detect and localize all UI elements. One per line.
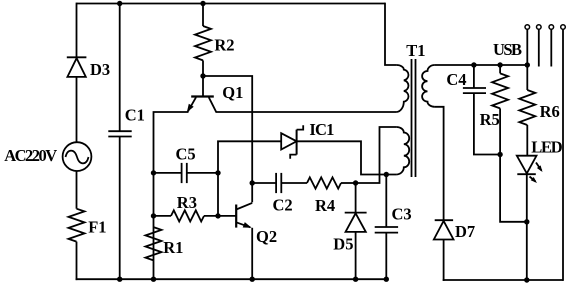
svg-text:D7: D7 [455, 222, 475, 241]
shunt regulator IC1 [281, 125, 303, 159]
wire R6 top lead [526, 29, 528, 90]
wire Q1 base lead [202, 76, 204, 97]
LED [517, 156, 543, 183]
USB pin 4 terminal [561, 25, 566, 30]
node USB bus / R5 [497, 62, 502, 67]
wire USB pin4 ground [562, 29, 564, 281]
node bottom rail / C3 [384, 277, 389, 282]
node bottom rail / Q2 emitter [250, 277, 255, 282]
resistor R3 [171, 210, 204, 221]
node top rail / R2 [200, 1, 205, 6]
label D7 [455, 222, 475, 241]
wire R2 bottom lead [202, 60, 204, 76]
capacitor C5 [182, 163, 187, 183]
node R3 right / IC1 branch [215, 213, 220, 218]
wire C2 to R4 [281, 182, 307, 184]
node IC1 / winding / C3 [384, 172, 389, 177]
svg-text:R5: R5 [480, 110, 500, 129]
wire AC source to F1 [76, 171, 78, 209]
svg-text:R4: R4 [315, 196, 335, 215]
node USB bus / R6 [525, 62, 530, 67]
wire R5 top lead [499, 65, 501, 73]
svg-text:R1: R1 [163, 238, 183, 257]
wire C5 left lead [154, 172, 182, 174]
label LED [531, 138, 563, 157]
transformer T1 secondary winding [422, 65, 435, 107]
USB pin 2 terminal [537, 25, 542, 30]
wire C4 top lead [473, 65, 475, 88]
svg-text:IC1: IC1 [309, 120, 334, 139]
label C5 [176, 145, 196, 164]
node C5 right / IC1 branch [215, 170, 220, 175]
label R3 [177, 193, 197, 212]
diode D7 [434, 220, 454, 239]
wire top rail [77, 3, 386, 5]
wire R5 bottom lead to LED node [500, 108, 527, 221]
label R1 [163, 238, 183, 257]
label R6 [540, 102, 560, 121]
wire C1 branch upper [119, 4, 121, 132]
USB pin 1 terminal [525, 25, 530, 30]
svg-text:C1: C1 [125, 106, 145, 125]
svg-text:R2: R2 [214, 36, 234, 55]
svg-text:USB: USB [493, 40, 522, 59]
svg-text:T1: T1 [406, 41, 425, 60]
wire R3 to Q2 base [204, 215, 236, 217]
wire USB pin2 [538, 29, 540, 66]
node R5 / LED [524, 219, 529, 224]
wire D5 node to feedback winding top [356, 127, 397, 183]
svg-text:Q2: Q2 [256, 227, 277, 246]
svg-text:R3: R3 [177, 193, 197, 212]
label USB [493, 40, 522, 59]
svg-text:F1: F1 [88, 217, 106, 236]
label Q2 [256, 227, 277, 246]
svg-text:R6: R6 [540, 102, 560, 121]
wire D7 bottom lead [443, 240, 445, 281]
transistor Q1 [187, 97, 216, 113]
resistor R5 [492, 73, 508, 108]
label T1 [406, 41, 425, 60]
wire Q2 emitter to bottom rail [251, 228, 253, 279]
capacitor C4 [463, 88, 486, 93]
resistor R2 [195, 26, 211, 60]
wire IC1 anode branch [218, 141, 281, 216]
fuse F1 [69, 209, 85, 242]
resistor R4 [307, 177, 341, 188]
transformer T1 feedback winding [397, 127, 410, 175]
transformer T1 primary winding [397, 65, 409, 112]
transformer T1 core [412, 59, 416, 177]
resistor R1 [146, 227, 162, 260]
node R3 left [151, 213, 156, 218]
wire C4 bottom lead to R5 [474, 93, 500, 154]
wire C3 top lead [385, 175, 387, 228]
capacitor C1 [108, 131, 131, 136]
diode D3 [67, 57, 87, 77]
node bottom rail / D5 [353, 277, 358, 282]
wire left rail top segment [76, 3, 78, 58]
wire secondary bottom to D7 [435, 107, 444, 220]
label D3 [90, 60, 110, 79]
label R4 [315, 196, 335, 215]
svg-text:AC220V: AC220V [4, 146, 57, 165]
node R4 / D5 [353, 180, 358, 185]
svg-text:C3: C3 [392, 205, 412, 224]
wire C5 right lead [187, 172, 218, 174]
wire bottom rail (secondary side) [443, 279, 563, 281]
wire primary top lead [385, 3, 397, 65]
svg-text:D5: D5 [333, 235, 353, 254]
wire bottom rail (primary side) [76, 278, 387, 280]
label C4 [446, 70, 466, 89]
svg-text:C5: C5 [176, 145, 196, 164]
node bottom rail / LED [524, 277, 529, 282]
label IC1 [309, 120, 334, 139]
label C2 [273, 196, 293, 215]
wire D3 to AC source [76, 77, 78, 142]
label C3 [392, 205, 412, 224]
wire R2 top lead [202, 4, 204, 27]
svg-text:C4: C4 [446, 70, 466, 89]
svg-text:LED: LED [531, 138, 563, 157]
node USB bus / C4 [471, 62, 476, 67]
wire LED cathode to bottom rail [526, 174, 528, 281]
wire USB pin3 [550, 29, 552, 66]
label F1 [88, 217, 106, 236]
svg-text:D3: D3 [90, 60, 110, 79]
label AC220V [4, 146, 57, 165]
node bottom rail / R1 [151, 277, 156, 282]
label R2 [214, 36, 234, 55]
transistor Q2 [236, 203, 252, 228]
wire R6 to LED [526, 125, 528, 156]
wire C2 left lead [252, 182, 276, 184]
wire Q1 collector to transformer primary [216, 111, 397, 113]
wire R3 left lead [154, 215, 172, 217]
wire F1 to bottom rail [76, 242, 78, 281]
label Q1 [222, 83, 243, 102]
USB pin 3 terminal [549, 25, 554, 30]
node C5 left [151, 170, 156, 175]
wire secondary top to USB bus [435, 64, 528, 66]
wire IC1 cathode to winding bottom node [297, 141, 397, 174]
svg-text:C2: C2 [273, 196, 293, 215]
resistor R6 [519, 90, 535, 125]
wire D5 bottom lead [355, 232, 357, 279]
node bottom rail / C1 [117, 277, 122, 282]
label D5 [333, 235, 353, 254]
wire R2 node to Q2 collector branch [203, 76, 252, 202]
node top rail / C1 [117, 1, 122, 6]
svg-text:Q1: Q1 [222, 83, 243, 102]
wire Q1 emitter to left branch [154, 112, 189, 279]
AC source AC220V [63, 142, 92, 171]
node R2 / Q1 base [200, 73, 205, 78]
node C4 / R5 [497, 152, 502, 157]
wire C1 branch lower [119, 137, 121, 280]
label C1 [125, 106, 145, 125]
capacitor C3 [375, 227, 398, 233]
node C2 / Q2 collector [250, 180, 255, 185]
wire R4 to D5 node [341, 182, 356, 184]
label R5 [480, 110, 500, 129]
wire C3 bottom lead [385, 233, 387, 280]
capacitor C2 [276, 173, 281, 193]
wire D5 top lead [355, 183, 357, 213]
diode D5 [345, 213, 367, 232]
